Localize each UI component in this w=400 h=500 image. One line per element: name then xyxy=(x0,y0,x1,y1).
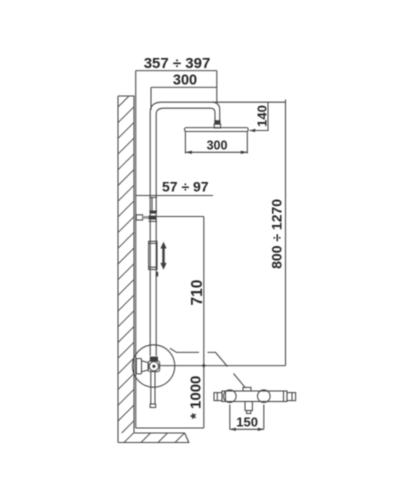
svg-text:* 1000: * 1000 xyxy=(188,376,205,419)
dimension 57÷97 underline xyxy=(136,195,213,197)
left knob xyxy=(214,393,222,401)
ball joint connector xyxy=(214,120,220,124)
svg-text:357 ÷ 397: 357 ÷ 397 xyxy=(144,55,211,72)
shower column riser pipe xyxy=(150,102,164,356)
left mounting nut xyxy=(224,390,237,403)
right knob xyxy=(287,393,296,401)
svg-text:300: 300 xyxy=(207,139,228,153)
arrow at head plate xyxy=(250,129,256,132)
floor baseline for *1000 xyxy=(136,427,204,429)
slider sleeve xyxy=(149,241,157,269)
telescopic joint on pipe xyxy=(149,198,157,212)
dimension 140 bracket xyxy=(250,102,269,130)
mixer valve: body xyxy=(148,361,159,372)
slider lock knob xyxy=(156,272,158,277)
right extension of top dims xyxy=(216,71,218,103)
mixer valve: wall flange xyxy=(136,359,141,374)
wall bracket xyxy=(136,215,142,220)
shower head plate xyxy=(185,128,249,132)
dimension 357÷397 line xyxy=(136,70,217,72)
dimension 150 xyxy=(230,405,264,430)
wire: wall-line / left extension line x=135.7 xyxy=(135,71,137,428)
dimension 300 (top) line xyxy=(151,87,217,110)
mixer valve: taper xyxy=(142,361,149,372)
outlet xyxy=(245,402,252,411)
mixer valve: handle circles xyxy=(149,362,158,371)
top tab xyxy=(243,387,251,391)
dimension 710 top extension line xyxy=(157,217,204,429)
right mounting nut xyxy=(258,390,271,403)
dimension 300 (bottom) extension lines xyxy=(185,132,247,154)
double arrow (adjustability) xyxy=(160,242,166,270)
mixer valve: top cap xyxy=(150,357,158,361)
wall section (hatched) xyxy=(118,96,134,443)
svg-text:140: 140 xyxy=(255,105,270,127)
leader (dashed) from circle to detail xyxy=(170,348,228,366)
svg-text:710: 710 xyxy=(189,280,206,306)
pipe below valve xyxy=(151,372,155,404)
shower arm inner lower line xyxy=(164,108,215,120)
svg-text:57 ÷ 97: 57 ÷ 97 xyxy=(162,179,209,195)
mixer body xyxy=(222,391,287,402)
floor section (hatched) xyxy=(118,433,189,443)
detail circle (callout bubble) xyxy=(132,345,174,387)
svg-text:300: 300 xyxy=(173,73,197,89)
dimension 800÷1270 vertical line xyxy=(285,100,287,366)
svg-text:150: 150 xyxy=(236,414,258,429)
svg-text:800 ÷ 1270: 800 ÷ 1270 xyxy=(269,199,285,269)
centerline at valve xyxy=(160,365,286,367)
arm top extension line to right dims xyxy=(162,101,286,103)
shower arm outer right bend into down pipe xyxy=(213,102,220,120)
dimension 300 (bottom) line with arrows xyxy=(185,151,247,153)
